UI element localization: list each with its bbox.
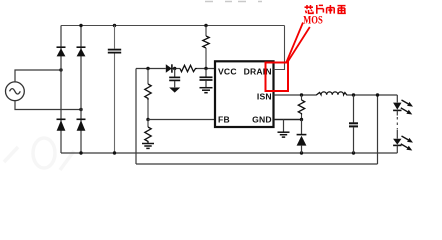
svg-text:GND: GND (252, 115, 272, 125)
node junctions on VCC feed (146, 67, 207, 70)
ground earth (C3) (200, 88, 213, 93)
node junction AC to bridge leg1 (59, 68, 62, 71)
char 内 (327, 5, 335, 14)
wire outer return bottom (136, 163, 378, 165)
diode D4 bottom of leg2 (77, 119, 86, 131)
node GND junction (300, 118, 303, 121)
light arrows LED D7 (401, 100, 413, 115)
wire loop left vertical (135, 69, 137, 165)
wire bridge leg2 vertical (80, 26, 82, 154)
node FB divider junction (146, 118, 149, 121)
wire LED string top (396, 95, 398, 102)
svg-text:VCC: VCC (218, 66, 237, 76)
LED D7 (393, 103, 401, 116)
resistor R4 FB lower (145, 120, 151, 144)
wire AC bottom lead (15, 101, 81, 110)
annotation text 芯片内置 (stroke approximation) (305, 5, 346, 14)
capacitor C3 (200, 69, 213, 88)
dashed wire more LEDs (396, 117, 398, 129)
diode D1 top of leg1 (57, 47, 66, 56)
wire bridge leg1 vertical (60, 26, 62, 154)
svg-text:ISN: ISN (257, 91, 272, 101)
capacitor C2 (169, 69, 180, 88)
LED D8 (393, 130, 401, 154)
node dots bottom bus (79, 151, 355, 154)
capacitor C1 input (on its vertical) (108, 26, 121, 154)
red callout leader lines (286, 23, 310, 63)
diode D2 top of leg2 (77, 47, 86, 56)
ground chassis triangle (C2) (169, 88, 180, 93)
ground earth (GND pin) (278, 120, 290, 138)
diode D3 bottom of leg1 (57, 119, 66, 131)
AC source V1 (6, 82, 25, 101)
char 芯 (305, 6, 314, 8)
wire ISN switch node line (274, 94, 398, 96)
node dots switch line (300, 93, 379, 96)
light arrows LED D8 (401, 136, 413, 151)
node junction AC to bridge leg2 (79, 108, 82, 111)
resistor R2 horizontal on VCC feed (180, 65, 197, 71)
diode D6 freewheel (297, 120, 307, 154)
faint cropped text remnants top edge (205, 1, 262, 3)
char 片 (317, 5, 324, 14)
svg-text:DRAIN: DRAIN (244, 66, 272, 76)
svg-text:FB: FB (218, 115, 230, 125)
resistor R1 startup (top bus to VCC line) (203, 26, 209, 69)
ground earth (FB divider) (142, 144, 154, 149)
wire DRAIN pin to top bus (274, 26, 285, 70)
svg-text:MOS: MOS (303, 14, 323, 27)
node dots top bus (79, 24, 207, 27)
wire VCC feed line (136, 68, 215, 70)
resistor R5 current sense (298, 95, 304, 120)
wire loop right vertical (377, 95, 379, 164)
resistor R3 FB upper (145, 69, 151, 120)
wire bottom bus (61, 152, 397, 154)
IC U1 body (215, 61, 274, 127)
wire top bus (61, 25, 285, 27)
red annotation rectangle around DRAIN/ISN (266, 63, 289, 92)
wire FB to pin (148, 119, 215, 121)
inductor L1 (316, 92, 347, 95)
diode D5 on VCC feed (166, 64, 172, 72)
wire GND pin (274, 119, 302, 121)
capacitor C4 output (349, 95, 358, 153)
faint watermark bottom-left (4, 138, 74, 170)
wire AC top lead (15, 70, 61, 82)
char 置 (338, 6, 346, 14)
